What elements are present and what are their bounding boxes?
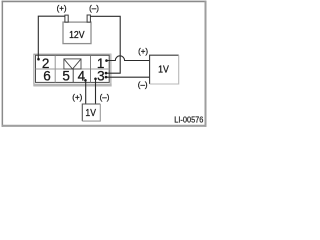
svg-text:1V: 1V: [85, 107, 96, 119]
svg-text:3: 3: [97, 69, 105, 84]
voltmeter V1 1V (right): [150, 55, 179, 84]
connector outer body: [33, 54, 111, 87]
svg-text:(+): (+): [57, 4, 67, 13]
wire pin 1 to voltmeter V1 (+) with crossover hop: [107, 56, 150, 61]
wire battery (+) to pin 2: [38, 16, 65, 59]
svg-text:(–): (–): [138, 81, 148, 90]
svg-text:(–): (–): [89, 4, 99, 13]
connector keying symbol (box with V): [64, 59, 81, 69]
svg-text:6: 6: [43, 69, 51, 84]
battery terminal (+) tab: [65, 15, 68, 22]
svg-text:5: 5: [62, 69, 70, 84]
svg-text:(+): (+): [138, 47, 148, 56]
svg-text:1V: 1V: [158, 63, 169, 75]
battery B1 12V: [63, 22, 91, 43]
node pin 1: [105, 59, 108, 62]
wire pin 3 to voltmeter V2 (-): [95, 79, 97, 104]
node pin 3 bottom: [94, 78, 97, 81]
svg-text:12V: 12V: [69, 29, 85, 40]
voltmeter V2 1V (bottom): [82, 104, 100, 121]
node pin 3 upper: [105, 72, 108, 75]
wire pin 4 to voltmeter V2 (+): [85, 80, 87, 104]
svg-text:LI-00576: LI-00576: [174, 115, 204, 125]
battery terminal (-) tab: [87, 15, 90, 22]
connector inner pin grid: [36, 55, 110, 82]
node pin 3 lower: [105, 76, 108, 79]
svg-text:(–): (–): [100, 93, 110, 102]
wire pin 3 to voltmeter V1 (-): [106, 76, 150, 78]
wire battery (-) to pin 3: [90, 16, 120, 73]
border frame: [2, 1, 207, 127]
node pin 2: [37, 58, 40, 61]
svg-text:(+): (+): [72, 93, 82, 102]
svg-text:4: 4: [78, 69, 86, 84]
node pin 4: [84, 79, 87, 82]
